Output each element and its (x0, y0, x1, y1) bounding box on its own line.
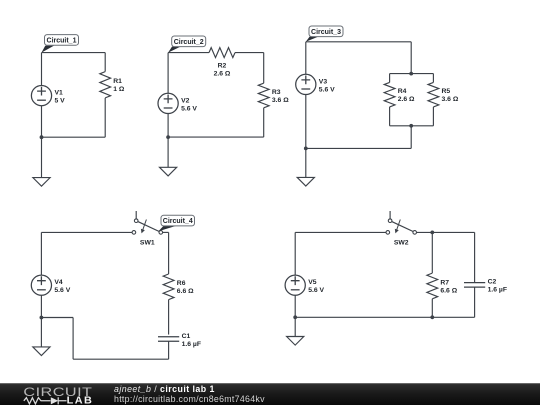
node C3 parallel bottom junction (409, 124, 413, 128)
ground G1 (33, 137, 50, 186)
svg-text:V5: V5 (308, 279, 317, 286)
wire C4 R6 to C1 (168, 300, 170, 335)
wire C5 left lower (294, 295, 296, 317)
node C3 parallel top junction (409, 72, 413, 76)
ground G4 (33, 318, 50, 356)
wire C4 step up (72, 318, 74, 360)
svg-text:6.6 Ω: 6.6 Ω (440, 287, 457, 294)
svg-text:SW1: SW1 (140, 239, 155, 246)
wire C1 left upper (41, 53, 43, 86)
svg-text:6.6 Ω: 6.6 Ω (177, 288, 194, 295)
wire C4 bottom (73, 358, 169, 360)
node C4 bottom junction (40, 316, 44, 320)
wire C2 top right (235, 52, 264, 54)
voltage source V1 (31, 86, 65, 106)
wire R4 top stub (389, 74, 391, 83)
svg-text:Circuit_4: Circuit_4 (163, 218, 193, 225)
resistor R5 (428, 82, 459, 107)
node C5 bottom junction R7 (430, 315, 434, 319)
resistor R3 (258, 83, 289, 108)
wire C2 left lower (167, 114, 169, 138)
svg-text:5.6 V: 5.6 V (319, 86, 335, 93)
svg-text:ajneet_b / circuit lab 1: ajneet_b / circuit lab 1 (114, 384, 215, 394)
svg-text:5.6 V: 5.6 V (54, 287, 70, 294)
wire C1 right lower (104, 98, 106, 137)
wire C4 right upper (168, 232, 170, 274)
wire C3 left lower (305, 95, 307, 149)
resistor R6 (163, 274, 194, 300)
switch SW2 (386, 211, 417, 246)
svg-text:3.6 Ω: 3.6 Ω (272, 97, 289, 104)
wire C4 left lower (40, 295, 42, 317)
svg-text:5.6 V: 5.6 V (308, 287, 324, 294)
node C1 bottom junction (40, 135, 44, 139)
svg-text:SW2: SW2 (394, 239, 409, 246)
voltage source V2 (158, 93, 197, 113)
wire C4 left upper (40, 232, 42, 275)
wire C5 left upper (294, 232, 296, 275)
svg-text:LAB: LAB (67, 396, 94, 405)
resistor R7 (427, 273, 458, 299)
wire C3 parallel top bar (390, 73, 434, 75)
node C5 bottom junction (293, 315, 297, 319)
ground G2 (160, 137, 177, 176)
wire C5 top (295, 231, 386, 233)
svg-text:C1: C1 (182, 333, 191, 340)
svg-text:1.6 µF: 1.6 µF (488, 287, 507, 294)
wire R5 bottom stub (432, 107, 434, 126)
wire C4 lower left (41, 317, 73, 319)
wire C3 feed down (410, 42, 412, 74)
wire C2 bottom (168, 136, 264, 138)
svg-text:V4: V4 (54, 279, 63, 286)
node C5 top junction (430, 231, 434, 235)
svg-text:2.6 Ω: 2.6 Ω (398, 96, 415, 103)
svg-text:R1: R1 (113, 78, 122, 85)
svg-text:C2: C2 (488, 279, 497, 286)
resistor R1 (100, 72, 125, 98)
svg-text:1.6 µF: 1.6 µF (182, 341, 201, 348)
label Circuit_4 callout (158, 215, 194, 231)
ground G5 (287, 317, 304, 345)
wire C1 bottom (42, 136, 106, 138)
wire R7 upper (431, 232, 433, 273)
wire R4 bottom stub (389, 107, 391, 126)
wire C4 switch to corner (163, 231, 169, 233)
svg-text:R6: R6 (177, 280, 186, 287)
wire C4 C1 down (168, 341, 170, 359)
voltage source V3 (296, 74, 335, 94)
wire C3 down to bottom (410, 126, 412, 149)
svg-text:1 Ω: 1 Ω (113, 86, 125, 93)
wire C2 top left (168, 52, 209, 54)
label Circuit_1 callout (42, 35, 79, 53)
wire C2 right upper (263, 53, 265, 84)
wire C3 bottom (306, 147, 411, 149)
node C3 bottom junction (304, 147, 308, 151)
svg-text:5.6 V: 5.6 V (181, 105, 197, 112)
wire C4 top (41, 231, 132, 233)
svg-text:Circuit_3: Circuit_3 (311, 29, 341, 36)
capacitor C2 (464, 279, 507, 294)
wire R5 top stub (432, 74, 434, 83)
svg-text:http://circuitlab.com/cn8e6mt7: http://circuitlab.com/cn8e6mt7464kv (114, 394, 265, 404)
voltage source V4 (31, 275, 70, 295)
svg-text:V2: V2 (181, 97, 190, 104)
wire C2 right lower (263, 108, 265, 137)
resistor R2 (209, 48, 235, 78)
capacitor C1 (158, 333, 201, 348)
label Circuit_2 callout (168, 36, 206, 53)
ground G3 (297, 148, 314, 186)
svg-text:3.6 Ω: 3.6 Ω (442, 96, 459, 103)
svg-text:Circuit_1: Circuit_1 (47, 38, 77, 45)
wire C2 lower (474, 287, 476, 317)
svg-text:2.6 Ω: 2.6 Ω (214, 71, 231, 78)
resistor R4 (384, 82, 415, 107)
svg-text:V3: V3 (319, 78, 328, 85)
svg-text:R4: R4 (398, 88, 407, 95)
wire C3 parallel bottom bar (390, 125, 434, 127)
svg-text:R5: R5 (442, 88, 451, 95)
wire C5 switch to right (417, 231, 475, 233)
switch SW1 (132, 211, 163, 246)
label Circuit_3 callout (306, 26, 343, 42)
wire C2 left upper (167, 53, 169, 94)
wire C1 right upper (104, 53, 106, 72)
node C2 bottom junction (166, 135, 170, 139)
wire C5 bottom (295, 316, 474, 318)
voltage source V5 (285, 275, 324, 295)
wire C3 top (306, 41, 411, 43)
svg-text:Circuit_2: Circuit_2 (174, 39, 204, 46)
wire C1 top (42, 52, 106, 54)
footer bar (0, 383, 540, 405)
svg-text:V1: V1 (55, 90, 64, 97)
svg-text:5 V: 5 V (55, 98, 66, 105)
svg-text:R3: R3 (272, 89, 281, 96)
wire C3 left upper (305, 42, 307, 75)
svg-text:R7: R7 (440, 279, 449, 286)
wire C2 upper (474, 232, 476, 282)
svg-text:R2: R2 (218, 63, 227, 70)
wire C1 left lower (41, 106, 43, 138)
CircuitLab logo zigzag-diode (24, 397, 67, 404)
wire R7 lower (431, 299, 433, 318)
